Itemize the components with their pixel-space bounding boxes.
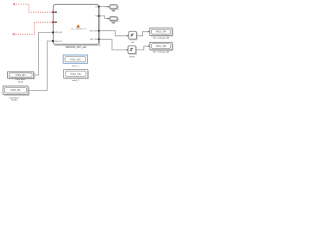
port In3 [52,32,54,34]
wire W10 from unit delay PrEV1 to Data Store Write Res_mileage_M6 [136,46,148,50]
subsystem block U1 SENSOR_ART_calc (MATLAB Function) [53,4,99,45]
svg-text:Res_mileage_M6: Res_mileage_M6 [153,52,170,54]
svg-text:Read1: Read1 [11,100,18,102]
wire W8 from port Out4 to unit delay PrEV1 [99,39,127,50]
block Sk6 (scope) [109,16,118,21]
wire W4 from Data Store Read1 to port In4 [28,41,52,90]
block Sk4 (scope) [109,5,118,10]
svg-text:Read: Read [18,81,24,83]
svg-text:Sk6: Sk6 [112,23,116,25]
svg-text:Jkb_TeqASWC_ifc: Jkb_TeqASWC_ifc [71,28,87,31]
port arrow into Sk6 [108,18,110,20]
wire W2 red dashed into port In2 [13,22,52,35]
MATLAB logo inside U1 [76,24,80,27]
svg-text:Res_mileage_M4: Res_mileage_M4 [153,37,170,39]
port arrow into Tstk [127,35,129,37]
port arrow into PrEV1 [127,49,129,51]
svg-text:SNS_AR: SNS_AR [55,31,63,34]
Data Store Read1 block [3,86,29,95]
port arrow into Res_mileage_M6 [148,45,150,47]
wire W3 from Data Store Read to port In3 [34,32,52,75]
port Out3 [98,30,100,32]
svg-text:Tk: Tk [95,6,97,8]
svg-text:PrEV_M6: PrEV_M6 [156,45,167,48]
svg-text:PrEV_M4: PrEV_M4 [16,74,27,77]
port Out4 [98,39,100,41]
port arrow into Sk4 [108,6,110,8]
unit delay block PrEV1 [128,46,136,54]
svg-text:Sk4: Sk4 [112,10,116,13]
svg-text:SENSOR_ART_calc: SENSOR_ART_calc [66,46,88,49]
Data Store Write block Res_mileage_M6 [150,42,173,50]
wire W7 from port Out3 to unit delay Tstk [99,31,127,36]
Data Store Memory block mem_1 (selected, blue) [63,55,87,63]
svg-text:mem_1: mem_1 [72,66,80,68]
svg-text:PrEV_M6: PrEV_M6 [70,73,81,76]
svg-text:PrEV_M4: PrEV_M4 [156,31,167,34]
port In1 red [52,11,54,13]
svg-text:Tb: Tb [95,16,97,18]
unit delay block Tstk [129,31,137,39]
svg-text:ART_M4: ART_M4 [90,30,97,33]
port In2 red [52,21,54,23]
Data Store Read block [8,72,35,79]
port Out2 [98,15,100,17]
svg-text:PrEV_M4: PrEV_M4 [70,58,81,61]
Data Store Memory block mem_2 [64,70,89,79]
port In4 [52,40,54,42]
wire W1 red dashed into port In1 [13,3,51,12]
wire W5 from port Out1 to block Sk4 [99,6,108,8]
wire W9 from unit delay Tstk to Data Store Write Res_mileage_M4 [137,32,149,36]
port arrow into Res_mileage_M4 [148,31,150,33]
svg-text:SNS_RD: SNS_RD [55,41,63,43]
Data Store Write block Res_mileage_M4 [150,28,173,36]
wire W6 from port Out2 to block Sk6 [99,16,108,19]
svg-text:ART_M6: ART_M6 [90,38,97,41]
svg-text:PrEV_M6: PrEV_M6 [11,89,22,92]
port Out1 [98,6,100,8]
svg-text:Tstk: Tstk [131,41,135,44]
svg-text:mem_2: mem_2 [72,80,80,82]
svg-text:PrEV1: PrEV1 [129,56,136,58]
